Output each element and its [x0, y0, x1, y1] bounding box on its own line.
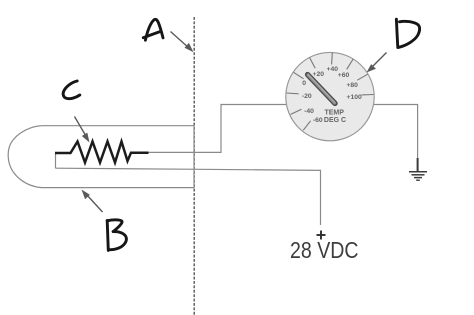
callout label D	[396, 19, 419, 47]
wire: lower bus from bulb to +28VDC feed	[56, 168, 321, 225]
gauge needle	[308, 75, 335, 104]
gauge tick marks	[287, 53, 374, 131]
callout label C	[63, 81, 80, 99]
temperature bulb housing B	[8, 126, 194, 188]
resistor R (temperature sensing element)	[55, 142, 149, 163]
svg-text:-40: -40	[304, 108, 314, 115]
gauge D: dial face	[286, 52, 374, 140]
callout label B	[107, 220, 126, 251]
callout label A	[143, 19, 163, 40]
svg-text:DEG C: DEG C	[324, 117, 346, 124]
dashed firewall line A	[193, 17, 195, 315]
arrow B to bulb housing	[82, 190, 103, 213]
svg-text:+80: +80	[346, 82, 358, 89]
arrow C to resistor	[75, 117, 90, 143]
svg-text:-60: -60	[313, 117, 323, 124]
svg-text:+20: +20	[313, 71, 325, 78]
wire: gauge to ground	[374, 105, 418, 161]
svg-text:+100: +100	[347, 94, 363, 101]
arrow D to gauge	[367, 53, 387, 73]
svg-text:-20: -20	[302, 93, 312, 100]
svg-text:TEMP: TEMP	[324, 110, 344, 117]
+28 VDC supply terminal	[317, 231, 326, 240]
svg-text:28 VDC: 28 VDC	[290, 237, 359, 263]
ground symbol	[409, 158, 427, 180]
svg-text:0: 0	[302, 80, 306, 87]
wire: resistor left lead drop to lower bus	[55, 153, 57, 168]
svg-text:+40: +40	[327, 66, 339, 73]
gauge scale numerals	[302, 66, 362, 124]
svg-text:+60: +60	[338, 72, 350, 79]
gauge legend TEMP DEG C	[324, 110, 346, 125]
arrow A to firewall	[171, 32, 194, 53]
wire: resistor output to gauge	[148, 105, 286, 153]
